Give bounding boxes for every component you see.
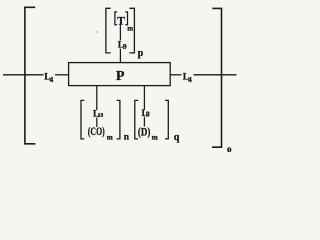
- bracket right of [(CO)m]: [117, 100, 120, 138]
- bracket left of [(CO)m]: [81, 100, 84, 138]
- wire: chain line box to right L4: [170, 74, 181, 76]
- bracket left of [(D)m]: [135, 100, 138, 138]
- bond: L9 to T group: [119, 24, 121, 40]
- label L4 (left linker): [44, 73, 53, 85]
- svg-text:n: n: [124, 133, 130, 143]
- wire: main chain line, far-right segment: [194, 74, 237, 76]
- wire: main chain line, far-left segment: [3, 74, 44, 76]
- inner bracket left of [T]: [115, 12, 117, 25]
- outer top bracket right: [129, 8, 134, 53]
- repeat bracket right (tall ]): [212, 8, 222, 147]
- box P (polymer backbone): [69, 63, 171, 86]
- bond: box bottom to L10: [96, 86, 98, 110]
- svg-text:T: T: [117, 15, 125, 27]
- svg-text:q: q: [174, 132, 180, 143]
- bond: box top to L9: [119, 49, 121, 63]
- label L4 (right linker): [183, 72, 192, 84]
- svg-text:4: 4: [50, 75, 54, 84]
- svg-text:(CO): (CO): [88, 126, 105, 138]
- inner bracket right of [T]: [125, 12, 127, 25]
- repeat bracket left (tall [): [25, 7, 36, 144]
- svg-text:p: p: [138, 48, 144, 59]
- svg-text:o: o: [227, 144, 232, 154]
- svg-text:P: P: [116, 68, 125, 83]
- svg-text:4: 4: [188, 75, 192, 84]
- svg-text:(D): (D): [138, 126, 151, 138]
- svg-text:m: m: [127, 24, 133, 32]
- svg-text:m: m: [107, 134, 113, 142]
- bond: L8 to (D): [143, 117, 145, 127]
- svg-text:10: 10: [98, 112, 103, 119]
- label L8 (bottom-right linker): [142, 109, 150, 119]
- label L10 (bottom-left linker): [93, 110, 103, 120]
- svg-text:8: 8: [146, 109, 150, 118]
- speckle dot (scan artifact): [96, 31, 97, 32]
- bracket right of [(D)m]: [165, 100, 168, 138]
- svg-text:m: m: [152, 134, 158, 142]
- svg-text:9: 9: [123, 43, 127, 51]
- wire: chain line from L4 to box P: [55, 74, 69, 76]
- outer top bracket left: [106, 8, 111, 53]
- bond: L10 to (CO): [96, 118, 98, 127]
- label L9 (top linker): [118, 40, 127, 51]
- bond: box bottom to L8: [143, 86, 145, 110]
